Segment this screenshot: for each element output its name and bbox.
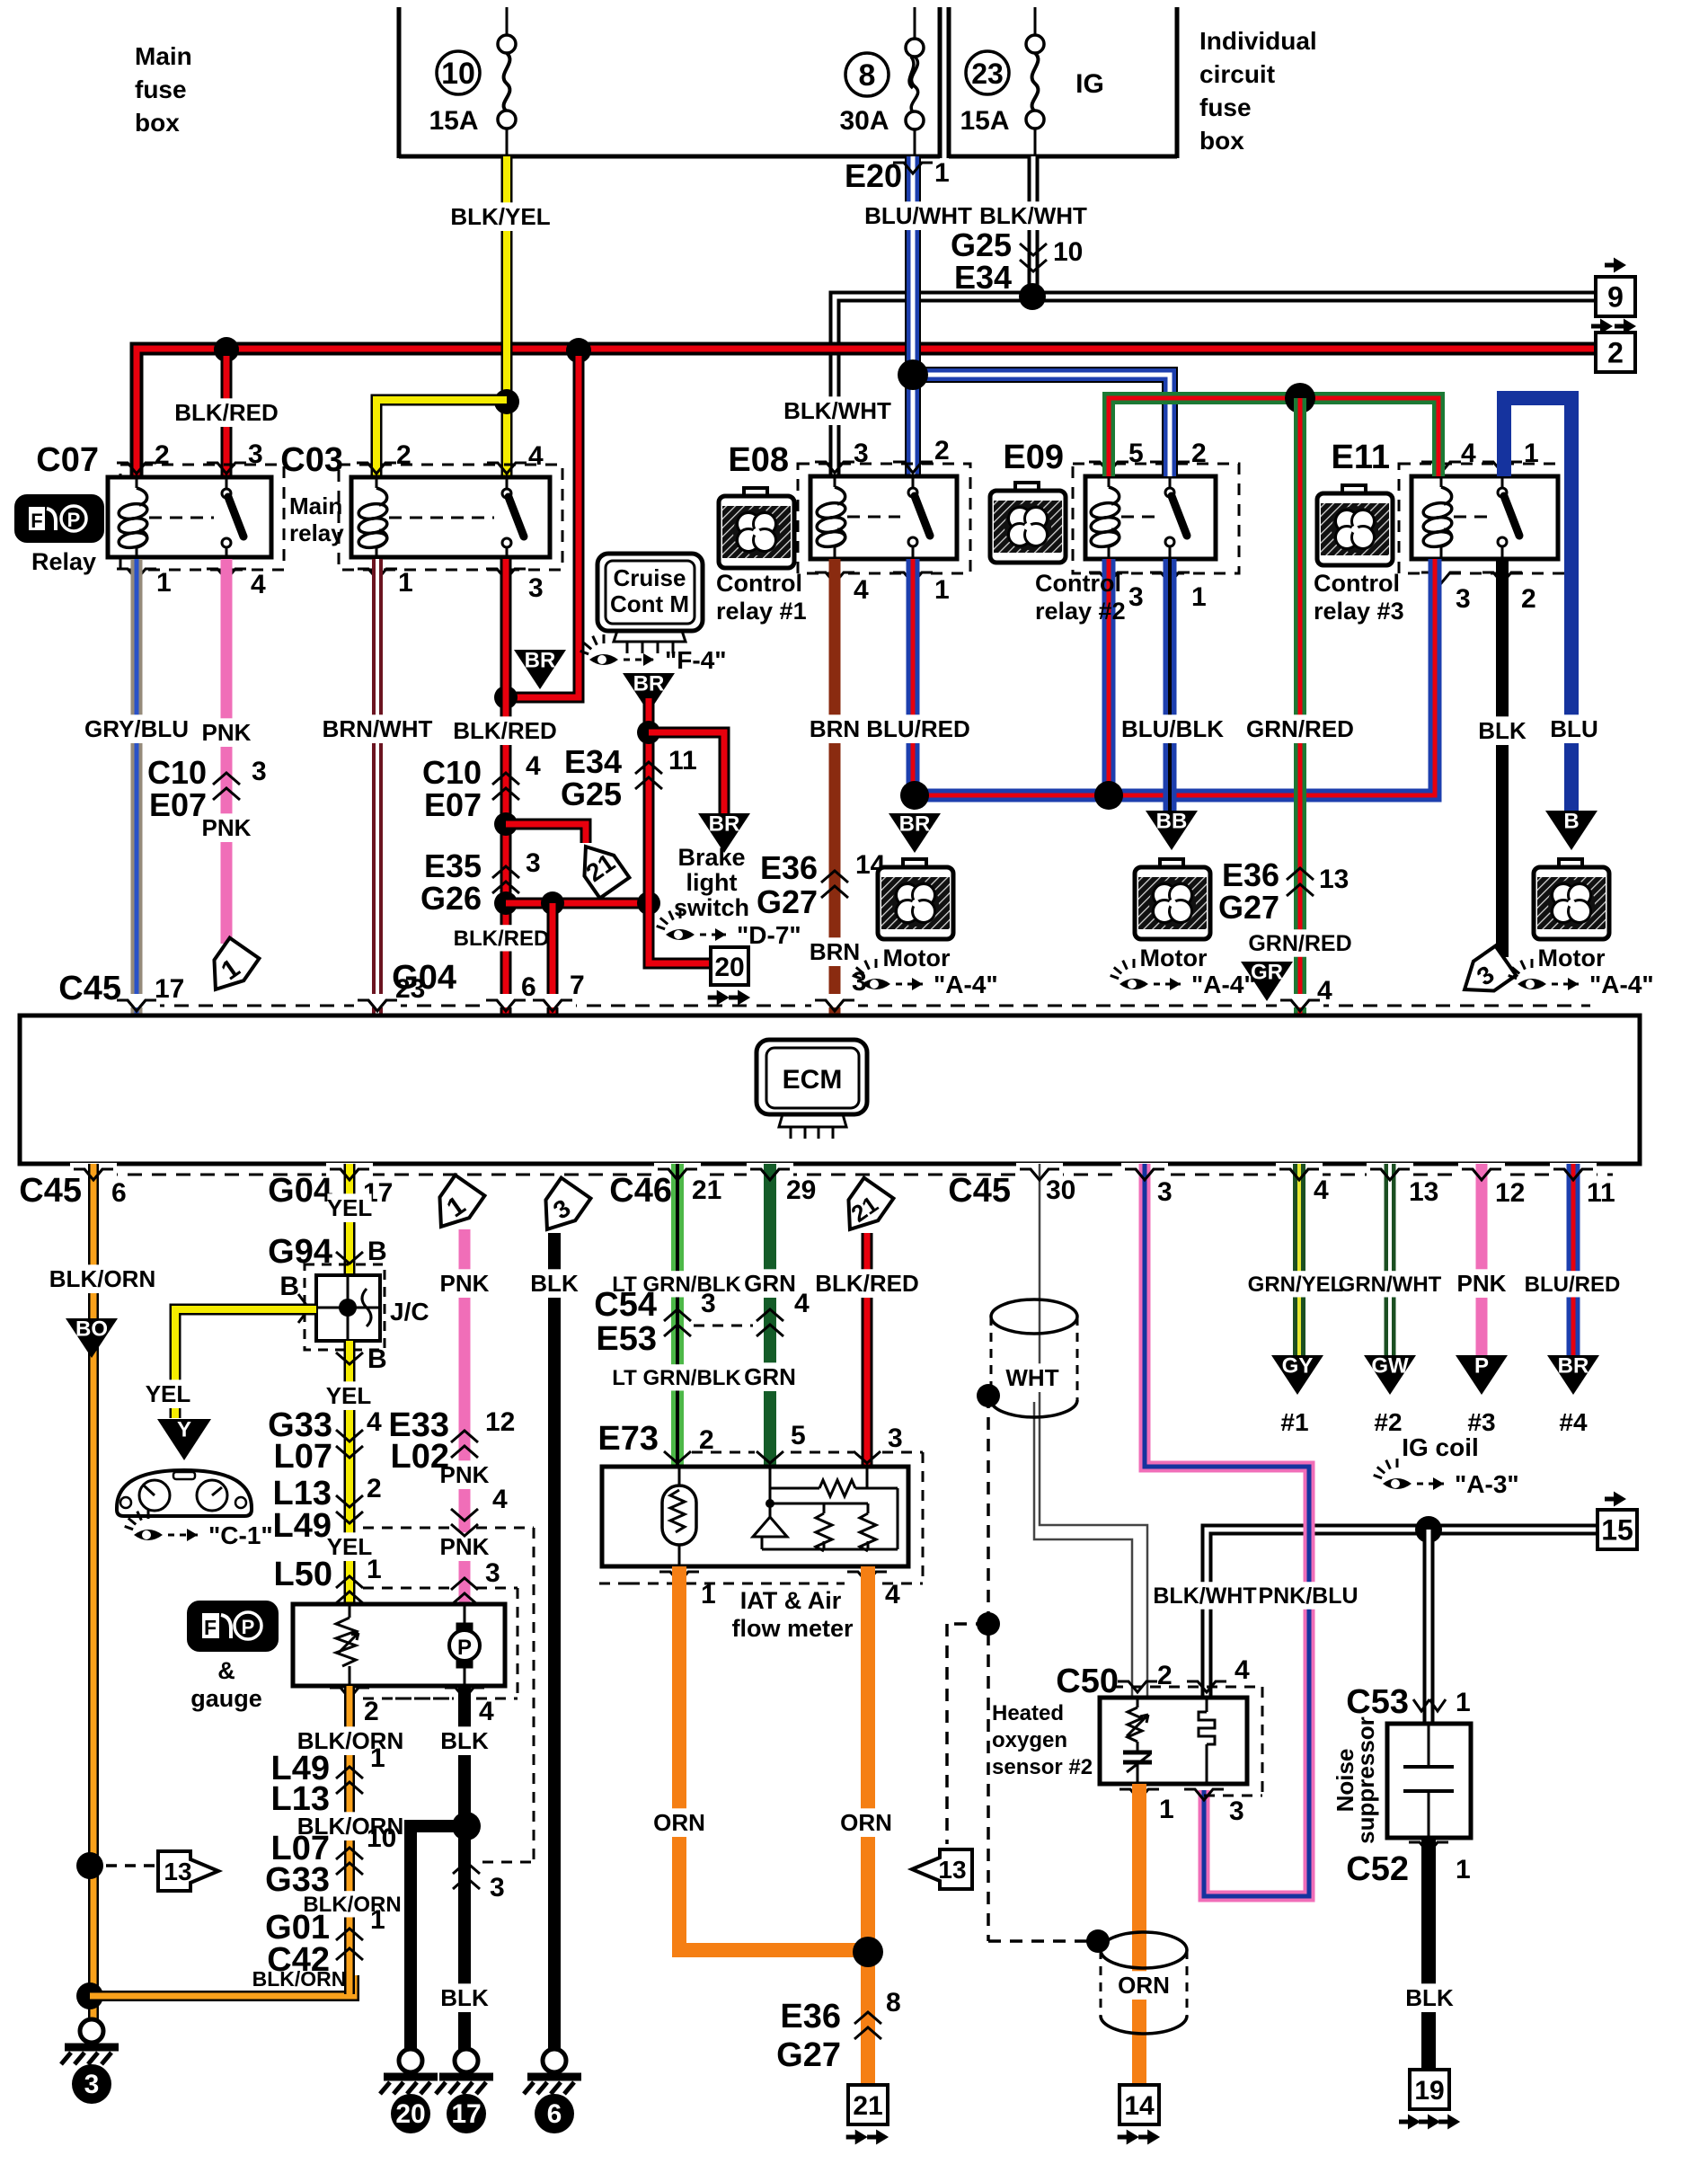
connector L13 L49 pin 2 [273,1474,382,1545]
eye ref A-4 motor 1 [853,959,890,989]
svg-text:ORN: ORN [1118,1972,1170,1999]
svg-text:relay #2: relay #2 [1035,598,1126,625]
triangle BR motor 1 [889,813,941,853]
label control relay #2 [1035,570,1126,625]
svg-text:B: B [1563,810,1579,834]
wire GRN/YEL to GY triangle [1248,1164,1344,1355]
connector pin 3 on BLK with dashed [453,1862,505,1902]
bus GRN/RED from E09 pin 5 to E11 pin 4 [1109,398,1438,476]
component fuel pump and gauge box [293,1604,505,1686]
svg-text:4: 4 [1317,976,1332,1006]
module cruise control [597,554,703,653]
svg-text:BLK: BLK [1478,717,1527,744]
svg-text:C45: C45 [948,1172,1011,1210]
svg-text:P: P [242,1616,255,1638]
svg-text:3: 3 [1229,1796,1244,1826]
label control relay #3 [1314,570,1404,625]
connector C54 E53 pin 3 on LT GRN/BLK [594,1286,715,1358]
svg-text:3: 3 [252,757,267,786]
connector pin 4 pink with dashed link [363,1485,534,1536]
svg-text:8: 8 [859,58,876,93]
dashed line down from WHT cylinder [988,1396,1093,1941]
svg-text:Individual: Individual [1199,27,1317,55]
svg-text:C42: C42 [267,1941,330,1979]
svg-text:13: 13 [1409,1177,1438,1207]
svg-text:BLK/RED: BLK/RED [453,717,557,744]
svg-text:oxygen: oxygen [992,1728,1067,1752]
connector E33 L02 pin 12 [388,1406,515,1476]
node BLU/RED junction motor1 [900,781,929,810]
svg-text:17: 17 [155,974,184,1004]
svg-text:B: B [367,1344,387,1374]
motor 3 radiator fan [1534,859,1609,939]
wire stubs through dashed row [117,1000,1320,1015]
triangle P ig coil 3 [1456,1355,1508,1395]
node BLK/WHT junction at G25/E34 [1019,283,1046,310]
wire YEL G04-17 down to J/C [327,1164,373,1275]
svg-text:14: 14 [1124,2091,1155,2121]
wire BLK/RED horizontal to brake wire [506,898,649,909]
label heated oxygen sensor [992,1701,1093,1779]
svg-text:5: 5 [1128,439,1144,468]
node junction at 563,776 [494,686,518,709]
svg-text:BRN/WHT: BRN/WHT [323,715,433,742]
svg-text:G27: G27 [1218,889,1279,926]
svg-text:GW: GW [1371,1354,1409,1379]
svg-text:"D-7": "D-7" [737,921,801,949]
svg-text:6: 6 [521,972,536,1002]
node ORN junction [853,1937,883,1967]
svg-text:Control: Control [1035,570,1121,597]
svg-text:1: 1 [1456,1688,1471,1717]
svg-text:6: 6 [547,2099,562,2129]
svg-text:4: 4 [479,1697,494,1726]
svg-text:YEL: YEL [146,1380,191,1407]
triangle Y instrument cluster [157,1419,211,1460]
svg-text:1: 1 [370,1743,385,1773]
svg-text:G27: G27 [757,883,818,920]
svg-text:B: B [367,1237,387,1266]
motor 1 radiator fan [878,859,953,939]
svg-text:30: 30 [1046,1175,1075,1205]
svg-text:ORN: ORN [653,1809,705,1836]
svg-text:"A-4": "A-4" [1191,971,1256,998]
svg-text:3: 3 [485,1558,500,1588]
svg-text:4: 4 [492,1485,508,1514]
svg-text:PNK: PNK [202,814,252,841]
svg-text:BR: BR [525,649,556,673]
svg-text:3: 3 [1157,1177,1173,1207]
triangle BR ig coil 4 [1547,1355,1599,1395]
svg-text:#2: #2 [1374,1408,1402,1436]
gauge pin 2 BLK/ORN and pin 4 BLK [330,1688,494,1726]
terminal box 14 with arrows [1118,2085,1160,2145]
arrow 3 outgoing black [1455,946,1517,1005]
wire BLU/RED to BR triangle [1525,1164,1621,1355]
svg-text:1: 1 [370,1905,385,1935]
fuse 8 30A [839,7,924,156]
label control relay #1 [716,570,807,625]
triangle BO [66,1318,118,1358]
svg-text:12: 12 [1495,1178,1525,1208]
terminal box 15 with arrow [1597,1492,1637,1550]
wire BLU/WHT from fuse 8 / E20 [845,156,972,476]
triangle GR on GRN/RED [1241,962,1293,1001]
svg-text:sensor #2: sensor #2 [992,1755,1093,1779]
node red bus junction C07 [214,337,239,362]
arrow 13 incoming left [912,1849,972,1889]
wire PNK to P triangle [1457,1164,1507,1355]
terminal box 20 with arrows [708,947,750,1006]
svg-text:L02: L02 [391,1438,449,1476]
svg-text:6: 6 [111,1178,127,1208]
arrow 21 incoming blk/red [836,1178,894,1240]
svg-text:"A-4": "A-4" [1589,971,1654,998]
svg-text:12: 12 [485,1407,515,1437]
connector L49 L13 pin 1 [271,1743,385,1818]
triangle GW ig coil 2 [1364,1355,1416,1395]
svg-text:E34: E34 [564,743,622,780]
svg-text:3: 3 [852,967,867,997]
svg-text:21: 21 [853,2091,882,2121]
svg-text:G25: G25 [561,776,622,812]
svg-text:Main: Main [135,42,192,70]
svg-text:BLU: BLU [1550,715,1597,742]
relay E11 control relay 3 [1331,439,1571,614]
svg-text:L13: L13 [271,1780,330,1818]
svg-text:"A-3": "A-3" [1455,1470,1519,1498]
svg-text:3: 3 [490,1873,505,1902]
svg-text:GRN/RED: GRN/RED [1246,715,1354,742]
wire BLU/WHT overlay at bus crossings [905,280,921,368]
node junction 563,1005 [494,891,518,915]
connector G25 E34 pin 10 [951,226,1083,296]
wire BLU/BLK from E09 pin 1 [1121,559,1224,811]
svg-text:1: 1 [701,1580,716,1610]
wire PNK/BLU overlay at 15-line crossing [1304,1512,1315,1549]
svg-text:10: 10 [441,57,475,91]
svg-text:2: 2 [699,1425,714,1455]
svg-text:E53: E53 [596,1320,657,1358]
svg-text:relay: relay [289,519,344,546]
svg-text:30A: 30A [839,106,889,136]
svg-text:BB: BB [1156,810,1188,834]
svg-text:GRY/BLU: GRY/BLU [84,715,189,742]
svg-text:13: 13 [1319,865,1349,894]
fuse 23 15A IG [960,7,1103,156]
wire ORN E73 pin1 [653,1566,868,1950]
wire WHT thin from C45-30 [1034,1164,1147,1696]
connector E36 G27 pin 8 on ORN [776,1988,901,2074]
svg-text:Y: Y [177,1418,191,1442]
fuse 10 15A [429,7,516,156]
connector E36 G27 pin 13 on GRN/RED [1218,856,1349,926]
svg-text:4: 4 [367,1407,382,1437]
svg-text:ORN: ORN [840,1809,892,1836]
bus main red B+ line [137,349,1597,477]
svg-text:G33: G33 [265,1861,330,1899]
wire red brake light switch chain [649,698,713,963]
svg-text:Relay: Relay [31,548,96,575]
svg-text:1: 1 [1191,582,1207,612]
svg-text:5: 5 [791,1421,806,1450]
svg-text:suppressor: suppressor [1352,1716,1379,1844]
svg-text:1: 1 [156,568,172,598]
svg-text:G04: G04 [392,959,456,997]
wire BLK/ORN C45-6 down to ground 3 [49,1164,155,2019]
wire ORN from C50 pin 1 to box 14 [1132,1784,1146,2085]
svg-text:15A: 15A [960,106,1009,136]
triangle BR cruise feed [623,673,675,713]
wire BLK/RED from arrow 21 to E73 pin 3 [815,1233,919,1465]
labels ECM pins 3 4 13 12 11 [1157,1175,1615,1208]
svg-text:C10: C10 [147,754,207,791]
svg-text:G04: G04 [268,1172,332,1210]
svg-text:E07: E07 [149,786,207,823]
svg-text:C53: C53 [1346,1683,1409,1721]
svg-text:Motor: Motor [883,945,951,971]
wire red drop from bus to BLK/RED junction [506,356,579,697]
wire BRN from E08 pin 4 to ECM pin 3 [810,559,860,1012]
wire BLK/ORN gauge pin 2 down [252,1686,404,1994]
svg-text:3: 3 [854,439,869,468]
individual circuit fuse box [949,7,1317,158]
svg-text:WHT: WHT [1005,1364,1058,1391]
wire BLK/YEL overlay at bus crossing [501,334,513,368]
svg-text:L49: L49 [273,1507,332,1545]
svg-text:PNK: PNK [440,1270,490,1297]
svg-text:17: 17 [451,2099,481,2129]
svg-text:E35: E35 [424,847,482,884]
node junction 1590,1702 [1415,1516,1442,1543]
svg-text:1: 1 [367,1555,382,1584]
bus BLU/RED horizontal to E11 pin 3 [913,559,1435,795]
svg-text:BLK/WHT: BLK/WHT [783,397,891,424]
svg-text:IG: IG [1075,69,1104,99]
svg-text:YEL: YEL [327,1194,373,1221]
dashed outline fuel gauge connector [395,1588,518,1698]
wire BLK/WHT from fuse 23 [979,156,1087,297]
node junction 563,917 with branch to arrow 21 [494,812,586,843]
wire PNK from C07 pin 4 to arrow 1 [202,559,252,944]
connector E35 G26 pin 3 on BLK/RED [420,847,541,917]
connector C53 pin 1 [1346,1683,1470,1721]
svg-text:PNK: PNK [202,719,252,746]
svg-text:fuse: fuse [135,75,187,103]
connector E36 G27 pin 14 on BRN [757,849,886,920]
svg-text:#3: #3 [1467,1408,1495,1436]
wire PNK/BLU C45-3 loop [1145,1164,1358,1896]
eye ref A-3 [1374,1459,1412,1489]
component E73 IAT and air flow meter [593,1420,923,1583]
svg-text:2: 2 [1607,337,1624,369]
svg-text:P: P [1474,1354,1489,1379]
wire BLK/YEL from fuse 10 [450,156,550,477]
svg-text:29: 29 [786,1175,816,1205]
svg-text:IG coil: IG coil [1402,1433,1479,1461]
dashed branch to arrow 13 [947,1624,988,1844]
svg-text:1: 1 [1159,1795,1174,1824]
svg-text:9: 9 [1607,281,1624,314]
icon radiator fan control relay 3 [1317,485,1393,565]
svg-text:4: 4 [1314,1175,1329,1205]
ground 6 [543,2049,566,2072]
svg-text:3: 3 [1128,582,1144,612]
relay C03 main relay [280,440,562,603]
node junction BLK 519,2032 [452,1812,481,1840]
svg-text:&: & [217,1657,235,1684]
junction block J/C with dashed outline [279,1264,429,1350]
svg-text:1: 1 [1456,1855,1471,1885]
svg-text:BLK/WHT: BLK/WHT [979,202,1087,229]
relay E08 control relay 1 [728,436,970,605]
svg-text:2: 2 [1191,439,1207,468]
svg-text:relay #3: relay #3 [1314,598,1404,625]
svg-text:4: 4 [854,575,869,605]
ground 20 [399,2049,422,2072]
terminal box 2 with arrows [1591,319,1636,373]
svg-text:13: 13 [164,1858,191,1885]
svg-text:4: 4 [794,1289,810,1318]
label G04 pins 6 7 [392,959,585,1002]
wire BLK/RED drop to C07 pin 3 [174,356,279,477]
arrow 1 incoming pink [427,1175,485,1237]
svg-text:L50: L50 [274,1556,332,1593]
wire BLU/RED from E09 pin 3 [1102,559,1116,795]
svg-text:E09: E09 [1003,439,1064,476]
svg-text:C45: C45 [19,1172,82,1210]
node red bus junction x644 [566,338,591,363]
svg-text:Brake: Brake [677,844,745,871]
label C45 pin 17 23 [58,970,425,1007]
triangle B motor 3 [1545,811,1597,850]
svg-text:21: 21 [692,1175,721,1205]
connector G33 L07 pin 4 [268,1406,382,1476]
svg-text:BR: BR [633,672,665,696]
ground 17 [455,2049,478,2072]
svg-text:1: 1 [934,158,950,188]
svg-text:GY: GY [1282,1354,1314,1379]
motor 2 radiator fan [1135,859,1210,939]
svg-text:BRN: BRN [810,938,860,965]
svg-text:2: 2 [155,440,170,470]
component C50 heated oxygen sensor 2 [1056,1655,1262,1826]
svg-text:Main: Main [289,492,342,519]
arrow 3 incoming black [533,1178,591,1240]
eye ref A-4 motor 2 [1111,959,1148,989]
svg-text:YEL: YEL [327,1533,373,1560]
icon radiator fan control relay 2 [990,483,1066,563]
svg-text:3: 3 [528,573,544,603]
svg-text:G27: G27 [776,2036,841,2074]
svg-text:ECM: ECM [783,1065,843,1095]
svg-text:"C-1": "C-1" [208,1521,273,1549]
svg-text:box: box [1199,127,1244,155]
svg-text:Cruise: Cruise [614,564,686,591]
svg-text:15: 15 [1601,1514,1633,1547]
label G04 pin 17 [268,1172,393,1210]
label BLU [1552,714,1596,743]
svg-text:B: B [279,1272,299,1301]
connector C10 E07 pin 4 on BLK/RED [422,751,541,823]
eye ref D-7 [657,909,695,940]
svg-text:E36: E36 [1222,856,1279,893]
svg-text:#1: #1 [1280,1408,1308,1436]
svg-text:10: 10 [367,1823,396,1853]
triangle BR above junction [514,650,566,689]
svg-text:20: 20 [395,2099,425,2129]
svg-text:E20: E20 [845,157,902,194]
svg-text:7: 7 [570,971,585,1000]
svg-text:BR: BR [709,812,740,837]
eye ref C-1 [125,1510,163,1540]
svg-text:1: 1 [1524,439,1539,468]
wire BLK from C52 to box 19 [1405,1838,1454,2069]
connector G94 pin B [268,1233,387,1271]
svg-text:GRN: GRN [744,1270,796,1297]
node BLU/RED junction E09 [1094,781,1123,810]
shield cylinder ORN [1101,1932,1187,2034]
main fuse box [135,7,940,158]
svg-text:E11: E11 [1331,439,1390,476]
wire BLK/WHT drop to C53 [1423,1530,1435,1724]
svg-text:2: 2 [934,436,950,466]
svg-text:3: 3 [526,848,541,878]
svg-text:13: 13 [938,1856,966,1884]
label BLK/WHT right [1157,1582,1252,1610]
wire YEL branch to instrument cluster [146,1309,316,1418]
svg-text:C46: C46 [609,1172,672,1210]
label C45 pin 6 [19,1172,126,1210]
svg-text:BLK/RED: BLK/RED [174,399,279,426]
wire BLK/ORN horizontal return [90,1975,354,1996]
label C46 pins 21 29 [609,1172,816,1210]
node junction 722,815 [637,721,660,744]
terminal box 9 with arrow [1596,258,1635,317]
wire GRN/WHT to GW triangle [1339,1164,1442,1355]
svg-text:flow meter: flow meter [731,1615,854,1642]
label BLK/WHT above E08 [788,396,887,425]
svg-text:Control: Control [1314,570,1400,597]
wire BLK gauge pin 4 down to ground 17 [440,1686,489,2050]
svg-text:#4: #4 [1559,1408,1588,1436]
svg-text:BLK/YEL: BLK/YEL [450,203,550,230]
svg-text:relay #1: relay #1 [716,598,807,625]
ECM band box [20,1015,1640,1164]
svg-text:BLK: BLK [1405,1984,1454,2011]
dashed connector line above ECM [113,994,1590,1017]
svg-text:C45: C45 [58,970,121,1007]
arrow 1 outgoing (pink) [201,938,260,1000]
svg-text:BR: BR [1558,1354,1589,1379]
pinmark redraw bottom row [74,1169,1593,1180]
svg-text:BRN: BRN [810,715,860,742]
svg-text:Control: Control [716,570,802,597]
svg-text:BLK/WHT: BLK/WHT [1153,1583,1256,1609]
icon fuel pump + pressure gauge [189,1602,277,1712]
svg-text:4: 4 [885,1580,900,1610]
shield cylinder WHT [991,1299,1077,1417]
svg-text:3: 3 [248,439,263,469]
svg-text:G25: G25 [951,226,1012,263]
svg-text:1: 1 [398,568,413,598]
svg-text:gauge: gauge [190,1685,262,1712]
svg-text:1: 1 [934,575,950,605]
node dashed junction at ORN cylinder [1086,1929,1110,1953]
svg-text:YEL: YEL [326,1382,372,1409]
svg-text:E36: E36 [760,849,818,886]
svg-text:IAT & Air: IAT & Air [740,1587,842,1614]
